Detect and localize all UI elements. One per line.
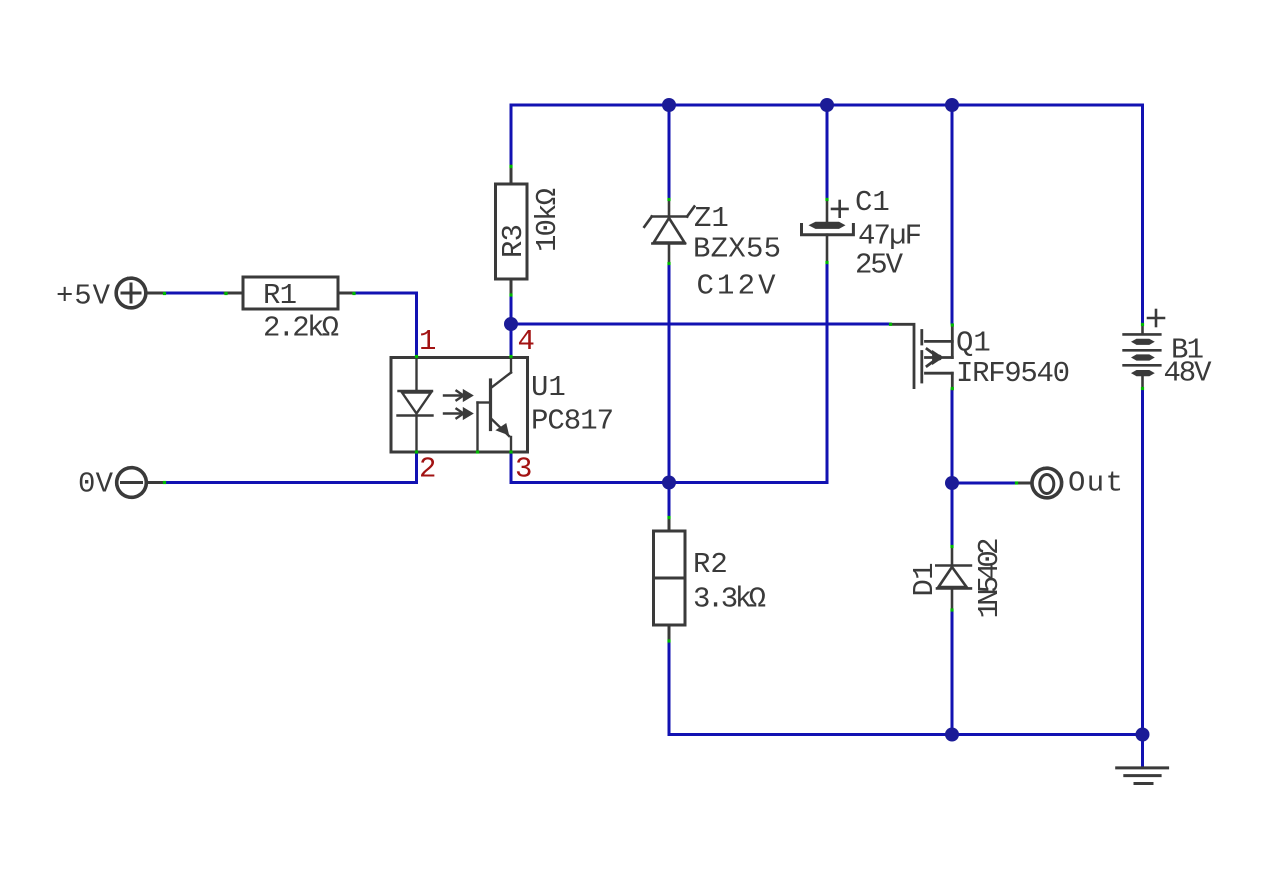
node junction top Q1 (945, 98, 959, 112)
svg-text:1: 1 (419, 325, 436, 358)
wire out node to D1 (951, 483, 954, 545)
svg-text:3: 3 (515, 453, 532, 486)
node junction gate pin4 (504, 317, 518, 331)
terminal Out (1017, 468, 1062, 498)
node junction bottom D1 (945, 728, 959, 742)
svg-text:0V: 0V (78, 468, 114, 501)
wire Z1 bottom to mid rail (668, 264, 671, 483)
wire mid rail pin3 to C1 corner (511, 481, 827, 484)
svg-text:+5V: +5V (56, 280, 111, 313)
svg-text:48V: 48V (1164, 357, 1213, 390)
svg-text:4: 4 (518, 325, 535, 358)
svg-text:1N5402: 1N5402 (973, 538, 1006, 619)
svg-text:R3: R3 (497, 224, 530, 258)
node junction bottom B1 ground (1136, 728, 1150, 742)
node junction top Z1 (662, 98, 676, 112)
optocoupler U1 phototransistor (478, 358, 512, 453)
terminal 0V (117, 468, 163, 498)
svg-text:D1: D1 (908, 563, 941, 597)
wire C1 bottom to mid rail corner (826, 263, 829, 483)
wire R2 bottom to bottom rail (669, 641, 1143, 735)
node junction top C1 (820, 98, 834, 112)
svg-text:R1: R1 (263, 279, 297, 312)
wire C1 top lead (826, 105, 829, 199)
node junction out (945, 476, 959, 490)
wire pin4 lead (510, 324, 513, 356)
optocoupler U1 box (391, 358, 528, 453)
svg-text:U1: U1 (531, 371, 566, 404)
resistor R2 (654, 531, 686, 625)
terminal +5V (116, 278, 163, 308)
wire Q1 drain from top rail (951, 105, 954, 323)
wire Z1 top lead (668, 105, 671, 199)
capacitor C1 (802, 200, 854, 262)
wire +5V to R1 (165, 292, 225, 295)
svg-text:Q1: Q1 (956, 327, 991, 360)
svg-text:BZX55: BZX55 (693, 233, 781, 266)
wire pin1 lead from R1 (356, 293, 417, 356)
optocoupler U1 light arrow lower (444, 409, 472, 418)
wire D1 bottom to bottom rail (951, 610, 954, 735)
battery B1 (1124, 310, 1164, 388)
transistor Q1 mosfet (891, 324, 952, 389)
wire ground stub (1141, 735, 1144, 768)
wire pin2 lead (415, 452, 418, 483)
wire R3 top lead (510, 105, 513, 166)
resistor R1 (243, 277, 338, 309)
wire 0V to pin2 (165, 481, 417, 484)
svg-text:C1: C1 (855, 186, 890, 219)
wire gate net from pin4 junction to Q1 (511, 323, 890, 326)
wire out node to Out terminal (952, 482, 1016, 485)
diode D1 (936, 547, 971, 609)
svg-text:25V: 25V (855, 249, 904, 282)
wire Q1 source to out node (951, 390, 954, 483)
wire R2 top lead (668, 483, 671, 518)
svg-text:IRF9540: IRF9540 (956, 357, 1070, 390)
svg-text:R2: R2 (693, 548, 728, 581)
svg-text:2: 2 (419, 453, 436, 486)
svg-text:C12V: C12V (697, 270, 777, 303)
resistor R3 (496, 184, 528, 279)
node junction mid Z1 R2 (662, 476, 676, 490)
wire R3 bottom to pin4 junction (510, 296, 513, 356)
svg-text:2.2kΩ: 2.2kΩ (263, 312, 339, 345)
svg-text:Z1: Z1 (694, 202, 729, 235)
wire top rail (511, 104, 1143, 107)
wire pin3 lead (510, 452, 513, 483)
ground (1117, 768, 1168, 784)
zener Z1 (644, 200, 694, 263)
optocoupler U1 LED (398, 358, 433, 453)
svg-text:Out: Out (1068, 467, 1123, 500)
svg-text:3.3kΩ: 3.3kΩ (693, 583, 766, 616)
wire B1 bottom to bottom rail (1141, 389, 1144, 735)
svg-text:10kΩ: 10kΩ (531, 188, 564, 252)
pin connection marks (green) (163, 165, 1144, 643)
optocoupler U1 light arrow upper (444, 391, 472, 400)
wire B1 top lead from rail (1141, 105, 1144, 323)
svg-text:PC817: PC817 (531, 405, 614, 438)
